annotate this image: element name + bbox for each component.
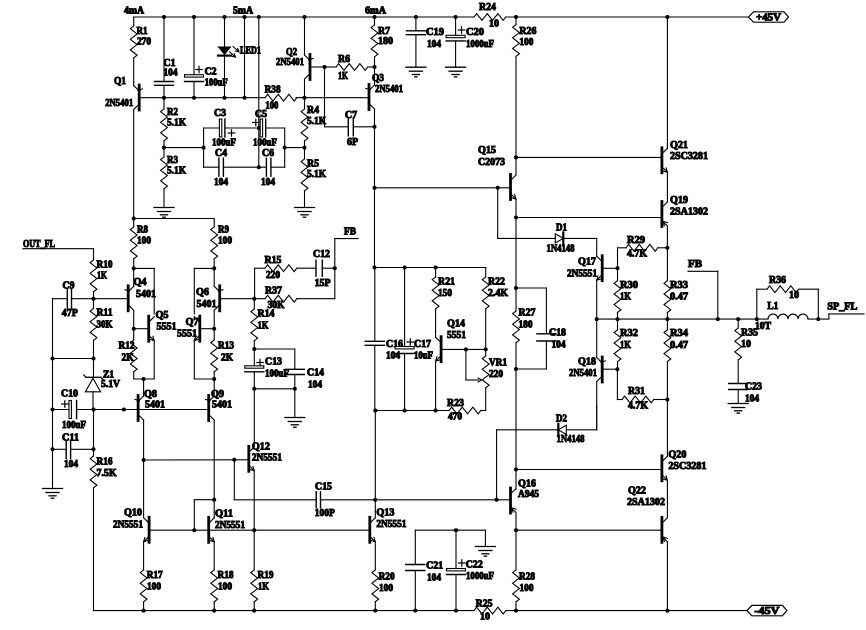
wire +45V to Q21 collector bbox=[665, 15, 669, 147]
capacitor C7 bbox=[325, 67, 377, 148]
svg-text:10T: 10T bbox=[755, 321, 771, 332]
svg-text:D2: D2 bbox=[556, 414, 567, 425]
transistor Q13 bbox=[370, 508, 407, 571]
resistor R16 bbox=[90, 410, 117, 611]
potentiometer VR1 bbox=[466, 349, 507, 410]
svg-text:R13: R13 bbox=[218, 341, 234, 352]
node 5mA label bbox=[233, 6, 254, 17]
svg-text:C2073: C2073 bbox=[478, 157, 505, 168]
svg-text:5.1K: 5.1K bbox=[167, 166, 186, 177]
capacitor C2 bbox=[185, 15, 228, 100]
wire rail to base bus bbox=[243, 15, 247, 100]
capacitor C21 bbox=[406, 530, 443, 612]
svg-text:R30: R30 bbox=[620, 280, 638, 291]
transistor Q20 bbox=[662, 400, 707, 518]
svg-text:SP_FL: SP_FL bbox=[827, 302, 857, 313]
resistor R35 bbox=[735, 317, 758, 383]
svg-text:5.1K: 5.1K bbox=[167, 118, 186, 129]
resistor R11 bbox=[90, 299, 113, 361]
capacitor C17 bbox=[395, 268, 433, 411]
svg-text:Q9: Q9 bbox=[211, 389, 224, 400]
svg-text:R28: R28 bbox=[519, 572, 535, 583]
resistor R38 bbox=[265, 85, 297, 112]
capacitor C16 bbox=[365, 268, 403, 411]
wire C13 to Q12 collector bbox=[253, 389, 255, 443]
svg-text:2N5401: 2N5401 bbox=[105, 98, 133, 109]
svg-text:2N5401: 2N5401 bbox=[375, 84, 403, 95]
svg-text:100: 100 bbox=[218, 236, 232, 247]
svg-text:0.47: 0.47 bbox=[670, 292, 688, 303]
svg-text:150: 150 bbox=[438, 288, 452, 299]
capacitor C14 bbox=[254, 349, 324, 391]
diode D1 bbox=[498, 188, 597, 255]
svg-text:R16: R16 bbox=[97, 457, 113, 468]
svg-text:1K: 1K bbox=[338, 71, 348, 82]
svg-text:100: 100 bbox=[137, 236, 151, 247]
svg-text:104: 104 bbox=[552, 340, 566, 351]
transistor Q1 bbox=[105, 76, 142, 218]
transistor Q7 bbox=[177, 316, 214, 379]
ground under C19 bbox=[406, 67, 426, 77]
resistor R26 bbox=[513, 15, 537, 172]
resistor R19 bbox=[251, 530, 274, 612]
transistor Q18 (PNP, emitter upper) bbox=[569, 319, 617, 430]
capacitor C20 bbox=[446, 15, 494, 67]
svg-text:Q6: Q6 bbox=[196, 287, 209, 298]
svg-text:15P: 15P bbox=[315, 278, 331, 289]
svg-text:5401: 5401 bbox=[212, 400, 232, 411]
svg-text:R27: R27 bbox=[519, 308, 536, 319]
wire Q12 base comp branch bbox=[234, 460, 316, 500]
resistor R15 bbox=[255, 255, 316, 299]
svg-text:D1: D1 bbox=[556, 223, 567, 234]
svg-text:Q3: Q3 bbox=[372, 73, 384, 84]
svg-text:2N5401: 2N5401 bbox=[276, 57, 304, 68]
wire output rail bbox=[595, 317, 829, 321]
svg-text:6mA: 6mA bbox=[365, 6, 387, 17]
svg-text:Q10: Q10 bbox=[124, 508, 142, 519]
svg-text:R5: R5 bbox=[307, 159, 319, 170]
capacitor C10 bbox=[51, 389, 96, 431]
svg-text:5401: 5401 bbox=[197, 299, 217, 310]
svg-text:104: 104 bbox=[164, 68, 178, 79]
svg-text:1K: 1K bbox=[258, 582, 269, 593]
ground under C14 bbox=[285, 389, 305, 427]
svg-text:104: 104 bbox=[214, 177, 228, 188]
ground under C23 bbox=[728, 404, 748, 414]
svg-text:220: 220 bbox=[266, 270, 280, 281]
resistor R23 bbox=[447, 398, 486, 423]
svg-text:2N5551: 2N5551 bbox=[252, 453, 282, 464]
svg-text:Q4: Q4 bbox=[134, 277, 147, 288]
svg-text:5.1K: 5.1K bbox=[307, 116, 326, 127]
svg-text:C4: C4 bbox=[215, 148, 227, 159]
capacitor C1 bbox=[155, 15, 178, 100]
svg-text:2N5551: 2N5551 bbox=[215, 520, 245, 531]
wire Q8 Q9 base bus bbox=[94, 408, 210, 412]
svg-text:A945: A945 bbox=[518, 489, 539, 500]
wire cap block left bus bbox=[203, 128, 205, 167]
svg-text:C3: C3 bbox=[214, 108, 226, 119]
svg-text:2N5401: 2N5401 bbox=[569, 368, 597, 379]
svg-text:100uF: 100uF bbox=[212, 138, 236, 149]
svg-text:R20: R20 bbox=[379, 572, 395, 583]
transistor Q8 bbox=[135, 379, 165, 460]
wire bias bottom line bbox=[373, 409, 449, 413]
resistor R29 bbox=[618, 235, 670, 268]
svg-text:R15: R15 bbox=[265, 255, 282, 266]
wire cap block right bus bbox=[283, 128, 305, 167]
resistor R8 bbox=[130, 217, 151, 269]
svg-text:0.47: 0.47 bbox=[670, 340, 688, 351]
svg-text:10: 10 bbox=[789, 290, 799, 301]
svg-text:5401: 5401 bbox=[145, 400, 165, 411]
wire Q20 base bbox=[516, 469, 661, 471]
wire Q6 emitter to Q7 collector bbox=[194, 268, 214, 314]
svg-text:2K: 2K bbox=[122, 353, 134, 364]
svg-text:R17: R17 bbox=[147, 570, 163, 581]
svg-text:5551: 5551 bbox=[157, 322, 177, 333]
transistor Q21 bbox=[514, 140, 708, 202]
capacitor C22 bbox=[415, 528, 494, 612]
node OUT_FL bbox=[23, 239, 94, 250]
node FB right stub bbox=[688, 259, 720, 321]
svg-text:C15: C15 bbox=[315, 482, 332, 493]
transistor Q11 bbox=[194, 500, 256, 570]
svg-text:100: 100 bbox=[147, 582, 161, 593]
resistor R4 bbox=[301, 98, 326, 150]
resistor R18 bbox=[211, 570, 234, 613]
svg-text:Q13: Q13 bbox=[376, 508, 394, 519]
svg-text:R19: R19 bbox=[258, 570, 274, 581]
svg-text:C13: C13 bbox=[265, 357, 282, 368]
svg-text:47P: 47P bbox=[62, 308, 78, 319]
svg-text:C19: C19 bbox=[426, 27, 444, 38]
svg-text:R33: R33 bbox=[670, 280, 688, 291]
ground under C11 bbox=[43, 449, 63, 498]
transistor Q3 bbox=[366, 67, 403, 127]
wire Q4 base bbox=[94, 298, 127, 300]
wire Q8 collector to Q12 base bbox=[142, 458, 237, 462]
svg-text:7.5K: 7.5K bbox=[97, 468, 117, 479]
svg-text:R36: R36 bbox=[769, 275, 786, 286]
resistor R27 bbox=[513, 218, 536, 372]
svg-text:R4: R4 bbox=[307, 105, 319, 116]
resistor R7 bbox=[371, 15, 393, 69]
wire base bus y=98 bbox=[141, 97, 369, 99]
svg-text:2SA1302: 2SA1302 bbox=[670, 207, 708, 218]
svg-text:C9: C9 bbox=[63, 281, 75, 292]
transistor Q16 (PNP A945) bbox=[511, 468, 540, 533]
svg-text:104: 104 bbox=[64, 459, 78, 470]
svg-text:R2: R2 bbox=[167, 107, 178, 118]
node 4mA label bbox=[124, 6, 145, 17]
svg-text:100: 100 bbox=[520, 583, 534, 594]
svg-text:R31: R31 bbox=[628, 386, 645, 397]
svg-text:LED1: LED1 bbox=[240, 46, 261, 57]
wire Q7 emitter to Q9 emitter bbox=[194, 377, 216, 381]
svg-text:R9: R9 bbox=[218, 225, 229, 236]
svg-text:Q12: Q12 bbox=[252, 442, 270, 453]
wire VAS collector line bbox=[374, 127, 376, 268]
svg-text:C14: C14 bbox=[307, 368, 324, 379]
svg-text:2N5551: 2N5551 bbox=[376, 519, 406, 530]
svg-text:10: 10 bbox=[741, 339, 751, 350]
wire Q10 base over to Q11 collector bbox=[194, 498, 216, 531]
svg-text:100uF: 100uF bbox=[253, 138, 277, 149]
svg-text:C11: C11 bbox=[62, 433, 79, 444]
svg-text:5551: 5551 bbox=[177, 328, 197, 339]
capacitor C13 bbox=[245, 349, 289, 391]
svg-text:C6: C6 bbox=[262, 148, 274, 159]
svg-text:104: 104 bbox=[308, 380, 322, 391]
svg-text:10: 10 bbox=[480, 612, 490, 623]
svg-text:VR1: VR1 bbox=[489, 358, 507, 369]
svg-text:5551: 5551 bbox=[447, 330, 466, 341]
wire R12 Q5 to Q8 emitter bbox=[134, 377, 155, 381]
svg-text:Q21: Q21 bbox=[670, 140, 688, 151]
svg-text:R32: R32 bbox=[620, 328, 638, 339]
diode LED1 bbox=[218, 15, 261, 100]
capacitor C9 bbox=[53, 281, 96, 319]
svg-text:C17: C17 bbox=[414, 339, 431, 350]
svg-text:R25: R25 bbox=[476, 599, 493, 610]
svg-text:10uF: 10uF bbox=[414, 351, 433, 362]
wire C9 left branch bbox=[51, 299, 94, 410]
svg-text:100P: 100P bbox=[315, 508, 335, 519]
wire D2 anode branch bbox=[496, 430, 498, 500]
svg-text:R3: R3 bbox=[167, 155, 178, 166]
svg-text:4mA: 4mA bbox=[124, 6, 145, 17]
wire bias top line bbox=[373, 266, 486, 270]
svg-text:2N5551: 2N5551 bbox=[113, 520, 143, 531]
transistor Q19 (PNP, emitter lower) bbox=[514, 195, 708, 248]
svg-text:270: 270 bbox=[137, 37, 151, 48]
capacitor C23 bbox=[729, 382, 762, 405]
wire R27 node to Q16 collector bbox=[515, 369, 517, 470]
zener Z1 bbox=[84, 359, 121, 410]
svg-text:100: 100 bbox=[519, 37, 533, 48]
transistor Q22 (PNP, emitter lower) bbox=[627, 486, 669, 613]
power flag -45V bbox=[747, 605, 787, 617]
svg-text:Q17: Q17 bbox=[578, 257, 596, 268]
capacitor C12 bbox=[313, 249, 337, 289]
ground under R3 bbox=[154, 208, 174, 218]
resistor R31 bbox=[617, 369, 669, 412]
svg-text:5mA: 5mA bbox=[233, 6, 254, 17]
resistor R14 bbox=[251, 299, 275, 351]
capacitor C11 bbox=[51, 410, 96, 471]
wire Q4 emitter to Q5 collector bbox=[134, 268, 155, 314]
transistor Q6 bbox=[196, 266, 256, 330]
svg-text:104: 104 bbox=[261, 177, 275, 188]
capacitor C15 bbox=[315, 482, 376, 520]
power flag +45V bbox=[749, 12, 789, 24]
svg-text:R18: R18 bbox=[218, 570, 234, 581]
svg-text:220: 220 bbox=[489, 369, 503, 380]
capacitor C18 bbox=[516, 288, 566, 369]
svg-text:Q15: Q15 bbox=[478, 145, 496, 156]
svg-text:-45V: -45V bbox=[754, 606, 780, 617]
resistor R13 bbox=[211, 329, 234, 379]
svg-text:4.7K: 4.7K bbox=[628, 401, 648, 412]
transistor Q15 bbox=[373, 145, 519, 217]
svg-text:FB: FB bbox=[344, 227, 356, 238]
node SP_FL bbox=[827, 302, 864, 319]
svg-text:6P: 6P bbox=[347, 137, 358, 148]
resistor R33 bbox=[664, 248, 688, 321]
wire bottom -45V rail bbox=[94, 610, 747, 612]
wire rail to cap mid bbox=[257, 15, 261, 169]
resistor R36 bypass bbox=[755, 275, 821, 321]
svg-text:+45V: +45V bbox=[756, 12, 782, 23]
transistor Q12 bbox=[235, 442, 282, 531]
svg-text:Q8: Q8 bbox=[144, 389, 157, 400]
svg-text:C2: C2 bbox=[205, 67, 217, 78]
svg-text:C5: C5 bbox=[255, 109, 267, 120]
node 6mA label bbox=[365, 6, 387, 17]
resistor R20 bbox=[372, 570, 395, 613]
svg-text:R11: R11 bbox=[97, 308, 113, 319]
svg-text:5.1V: 5.1V bbox=[101, 379, 121, 390]
svg-text:R8: R8 bbox=[137, 225, 148, 236]
resistor R3 bbox=[161, 146, 187, 207]
resistor R17 bbox=[140, 570, 162, 613]
resistor R34 bbox=[664, 319, 688, 399]
svg-text:Q1: Q1 bbox=[114, 76, 126, 87]
ground under R5 bbox=[295, 208, 315, 218]
svg-text:10: 10 bbox=[489, 19, 499, 30]
transistor Q4 bbox=[125, 266, 156, 330]
svg-text:104: 104 bbox=[427, 39, 441, 50]
svg-text:104: 104 bbox=[427, 572, 441, 583]
svg-text:C21: C21 bbox=[426, 561, 443, 572]
svg-text:1000uF: 1000uF bbox=[466, 571, 494, 582]
svg-text:100: 100 bbox=[265, 100, 278, 111]
svg-text:R22: R22 bbox=[488, 277, 505, 288]
svg-text:Q7: Q7 bbox=[186, 317, 199, 328]
resistor R6 bbox=[325, 54, 375, 82]
svg-text:100: 100 bbox=[379, 583, 393, 594]
svg-text:1K: 1K bbox=[620, 340, 631, 351]
svg-text:470: 470 bbox=[448, 412, 462, 423]
svg-text:100uF: 100uF bbox=[62, 420, 86, 431]
ground near C22 bbox=[475, 530, 495, 556]
transistor Q2 bbox=[276, 15, 327, 100]
resistor R30 bbox=[614, 268, 638, 321]
svg-text:1N4148: 1N4148 bbox=[547, 244, 575, 255]
capacitor C19 bbox=[406, 15, 444, 67]
svg-text:100: 100 bbox=[218, 582, 232, 593]
wire Q16 emitter to Q22 base bbox=[516, 529, 661, 531]
wire top +45V rail bbox=[134, 16, 749, 18]
resistor R28 bbox=[513, 530, 535, 612]
svg-text:C22: C22 bbox=[466, 560, 483, 571]
svg-text:R38: R38 bbox=[265, 85, 281, 96]
capacitor C5 bbox=[253, 109, 285, 149]
svg-text:Q14: Q14 bbox=[447, 319, 465, 330]
svg-text:FB: FB bbox=[688, 259, 702, 270]
capacitor C3 bbox=[204, 108, 259, 149]
svg-text:R37: R37 bbox=[265, 286, 282, 297]
resistor R24 bbox=[474, 2, 506, 30]
transistor Q5 bbox=[134, 310, 177, 379]
svg-text:5401: 5401 bbox=[136, 289, 156, 300]
resistor R37 bbox=[254, 286, 334, 312]
svg-text:5.1K: 5.1K bbox=[307, 169, 326, 180]
svg-text:C20: C20 bbox=[466, 27, 484, 38]
wire Q13 collector to Q16 base bbox=[375, 498, 509, 502]
transistor Q17 bbox=[567, 249, 620, 319]
svg-text:L1: L1 bbox=[767, 301, 778, 312]
svg-text:1000uF: 1000uF bbox=[466, 39, 494, 50]
svg-text:1K: 1K bbox=[620, 292, 631, 303]
svg-text:180: 180 bbox=[378, 36, 393, 47]
svg-text:Q19: Q19 bbox=[670, 195, 688, 206]
svg-text:30K: 30K bbox=[97, 320, 113, 331]
svg-text:4.7K: 4.7K bbox=[627, 249, 647, 260]
svg-text:180: 180 bbox=[519, 320, 533, 331]
svg-text:C23: C23 bbox=[745, 382, 762, 393]
svg-text:R21: R21 bbox=[438, 277, 455, 288]
resistor R5 bbox=[301, 148, 326, 207]
resistor R12 bbox=[119, 329, 138, 379]
svg-text:R6: R6 bbox=[338, 54, 350, 65]
svg-text:R29: R29 bbox=[627, 235, 645, 246]
svg-text:R34: R34 bbox=[670, 328, 688, 339]
wire R2R3 junction to cap block bbox=[164, 146, 206, 150]
resistor R1 bbox=[130, 17, 151, 83]
transistor Q10 bbox=[113, 460, 196, 570]
svg-text:2SC3281: 2SC3281 bbox=[668, 461, 706, 472]
svg-text:C12: C12 bbox=[313, 249, 330, 260]
svg-text:Q5: Q5 bbox=[156, 310, 169, 321]
resistor R9 bbox=[134, 219, 232, 269]
svg-text:R14: R14 bbox=[258, 309, 275, 320]
svg-text:104: 104 bbox=[386, 351, 400, 362]
svg-text:Q16: Q16 bbox=[518, 479, 536, 490]
resistor R22 bbox=[482, 268, 508, 350]
resistor R32 bbox=[614, 319, 638, 371]
svg-text:C7: C7 bbox=[345, 110, 357, 121]
capacitor C4 bbox=[204, 148, 259, 188]
svg-text:Q11: Q11 bbox=[215, 509, 233, 520]
node FB left stub bbox=[335, 227, 358, 299]
inductor L1 bbox=[755, 301, 808, 332]
resistor R21 bbox=[432, 268, 455, 332]
svg-text:Q18: Q18 bbox=[578, 357, 596, 368]
resistor R25 bbox=[474, 599, 506, 623]
svg-text:2SC3281: 2SC3281 bbox=[670, 151, 708, 162]
svg-text:1N4148: 1N4148 bbox=[557, 434, 585, 445]
diode D2 bbox=[497, 406, 597, 445]
svg-text:R26: R26 bbox=[519, 26, 536, 37]
svg-text:C18: C18 bbox=[549, 328, 566, 339]
transistor Q14 bbox=[436, 319, 488, 411]
capacitor C6 bbox=[259, 148, 285, 188]
svg-text:R12: R12 bbox=[119, 341, 135, 352]
resistor R10 bbox=[90, 249, 112, 299]
wire base bus to Q13 bbox=[254, 529, 368, 531]
svg-text:R23: R23 bbox=[447, 398, 464, 409]
svg-text:Q22: Q22 bbox=[628, 486, 646, 497]
transistor Q9 bbox=[206, 379, 233, 500]
svg-text:2N5551: 2N5551 bbox=[567, 269, 597, 280]
svg-text:C10: C10 bbox=[61, 389, 78, 400]
svg-text:Q20: Q20 bbox=[668, 450, 686, 461]
svg-text:1K: 1K bbox=[97, 271, 107, 282]
resistor R2 bbox=[161, 98, 187, 148]
